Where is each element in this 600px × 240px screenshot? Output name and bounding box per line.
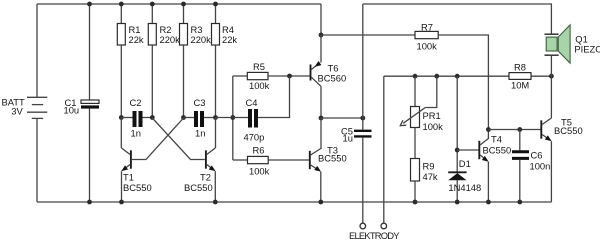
label C5 1u bbox=[341, 125, 353, 143]
svg-text:PIEZO: PIEZO bbox=[574, 44, 600, 55]
transistor T3 BC550 bbox=[310, 149, 321, 172]
wire T6 collector bbox=[320, 86, 322, 118]
resistor R8 10M bbox=[509, 73, 531, 80]
wire T5 emitter to ground bbox=[550, 141, 552, 202]
svg-text:1u: 1u bbox=[343, 133, 353, 144]
svg-text:T1: T1 bbox=[123, 172, 134, 183]
svg-text:Q1: Q1 bbox=[575, 33, 588, 44]
svg-text:470p: 470p bbox=[244, 132, 265, 143]
node C4 left junction bbox=[230, 115, 235, 120]
node C6 top junction bbox=[517, 127, 522, 132]
svg-text:100k: 100k bbox=[249, 80, 270, 91]
svg-text:100n: 100n bbox=[530, 160, 551, 171]
wire R5-R6 left bus bbox=[232, 76, 234, 160]
wire battery positive lead bbox=[36, 4, 38, 97]
transistor T2 BC550 bbox=[206, 148, 216, 171]
wire R3 top lead bbox=[181, 2, 186, 24]
svg-text:1N4148: 1N4148 bbox=[448, 182, 481, 193]
wire C1 bottom lead bbox=[87, 109, 92, 205]
node D1 top junction bbox=[455, 74, 460, 79]
wire PR1 to R9 bbox=[414, 128, 416, 159]
label R8 10M bbox=[511, 61, 529, 90]
node PR1 top junction bbox=[413, 74, 418, 79]
wire C2 left lead bbox=[121, 117, 132, 119]
svg-text:R8: R8 bbox=[514, 61, 526, 72]
resistor R9 47k bbox=[411, 159, 420, 182]
wire T1 emitter to ground bbox=[119, 171, 124, 204]
wire ground bottom rail bbox=[37, 201, 551, 203]
svg-text:1n: 1n bbox=[195, 128, 205, 139]
transistor T5 BC550 bbox=[541, 118, 551, 141]
resistor R4 22k bbox=[212, 24, 220, 46]
label T2 BC550 bbox=[184, 172, 213, 194]
node R2 C2 junction bbox=[150, 115, 155, 120]
wire C5 to left electrode bbox=[362, 138, 364, 224]
wire C2 to T2 base (cross) bbox=[152, 118, 205, 160]
wire T2 emitter to ground bbox=[213, 171, 218, 204]
node C5 top junction bbox=[360, 116, 365, 121]
svg-text:100k: 100k bbox=[423, 121, 444, 132]
wire C6 top lead bbox=[519, 130, 521, 151]
wire C3 to T1 base (cross) bbox=[132, 118, 184, 160]
wire R7 right lead bbox=[438, 35, 488, 130]
label BATT 3V bbox=[2, 96, 26, 116]
svg-text:C6: C6 bbox=[531, 150, 543, 161]
svg-text:BC550: BC550 bbox=[123, 182, 152, 193]
label R9 47k bbox=[423, 161, 438, 182]
wire T2 collector bbox=[215, 118, 217, 149]
label T3 BC550 bbox=[318, 145, 347, 164]
capacitor C6 100n bbox=[512, 152, 529, 159]
transistor T4 BC550 bbox=[479, 139, 488, 162]
wire C4 right lead bbox=[258, 76, 290, 118]
wire T1 collector bbox=[120, 118, 122, 149]
svg-text:PR1: PR1 bbox=[423, 110, 441, 121]
svg-text:C2: C2 bbox=[130, 97, 142, 108]
svg-text:C3: C3 bbox=[194, 97, 206, 108]
wire R5 right lead bbox=[268, 75, 310, 77]
wire D1 cathode lead bbox=[456, 76, 458, 171]
electrode left terminal bbox=[360, 223, 366, 229]
wire C5 top lead bbox=[362, 118, 364, 130]
label R5 100k bbox=[249, 61, 270, 91]
label C2 1n bbox=[130, 97, 142, 139]
svg-text:T2: T2 bbox=[200, 172, 211, 183]
wire T2 collector to C4 bbox=[216, 117, 249, 119]
node R3 C3 junction bbox=[181, 115, 186, 120]
electrode right terminal bbox=[381, 223, 387, 229]
label T4 BC550 bbox=[483, 133, 512, 155]
node T4 collector junction bbox=[486, 127, 491, 132]
capacitor C2 1n bbox=[135, 111, 141, 127]
wire T3 emitter to ground bbox=[318, 172, 323, 205]
capacitor C4 470p bbox=[250, 109, 256, 128]
wire R7 left lead bbox=[321, 34, 415, 36]
svg-text:BC550: BC550 bbox=[184, 182, 213, 193]
svg-text:100k: 100k bbox=[249, 166, 270, 177]
wire R4 bottom to node bbox=[215, 45, 217, 118]
node T4 base junction bbox=[455, 148, 460, 153]
wire R9 to ground bbox=[413, 181, 418, 204]
svg-text:220k: 220k bbox=[191, 34, 212, 45]
wire T4 collector stub bbox=[487, 130, 489, 140]
wire battery negative lead bbox=[36, 118, 38, 202]
wire C1 top lead bbox=[87, 2, 92, 100]
svg-text:BC550: BC550 bbox=[554, 125, 583, 136]
wire piezo drive vertical bbox=[362, 4, 364, 118]
svg-text:22k: 22k bbox=[129, 34, 144, 45]
capacitor C1 10u bbox=[81, 100, 99, 109]
svg-text:D1: D1 bbox=[459, 158, 471, 169]
label R7 100k bbox=[417, 21, 438, 51]
label R1 22k bbox=[129, 24, 144, 45]
wire C6 to ground bbox=[517, 160, 522, 204]
node T1 collector junction bbox=[119, 115, 124, 120]
node +3V to R7/T6 junction bbox=[319, 33, 324, 38]
wire R6 left lead bbox=[233, 159, 248, 161]
battery BATT 3V bbox=[27, 97, 47, 118]
svg-text:10u: 10u bbox=[64, 104, 80, 115]
resistor R1 22k bbox=[117, 24, 125, 46]
label R3 220k bbox=[191, 24, 212, 45]
resistor R3 220k bbox=[180, 24, 188, 46]
label C3 1n bbox=[194, 97, 206, 139]
transistor T1 BC550 bbox=[121, 148, 131, 171]
svg-text:R6: R6 bbox=[253, 144, 265, 155]
wire R4 top lead bbox=[213, 2, 218, 24]
svg-text:1n: 1n bbox=[131, 128, 141, 139]
label R2 220k bbox=[160, 24, 181, 45]
label PR1 100k bbox=[423, 110, 444, 132]
node wiper junction bbox=[434, 74, 439, 79]
svg-text:220k: 220k bbox=[160, 34, 181, 45]
wire D1 base to T4 bbox=[457, 149, 478, 151]
node T6-T3 output junction bbox=[319, 116, 324, 121]
resistor PR1 100k preset bbox=[411, 107, 420, 128]
speaker Q1 PIEZO bbox=[545, 25, 571, 63]
wire output to C5 bbox=[321, 117, 363, 119]
svg-text:22k: 22k bbox=[222, 34, 237, 45]
label T5 BC550 bbox=[554, 116, 583, 136]
svg-text:100k: 100k bbox=[417, 40, 438, 51]
svg-text:BC550: BC550 bbox=[318, 153, 347, 164]
wire detector line bbox=[384, 75, 509, 77]
wire D1 anode to ground bbox=[455, 180, 460, 204]
wiper PR1 bbox=[400, 76, 437, 125]
label T6 BC560 bbox=[318, 63, 347, 84]
label C6 100n bbox=[530, 150, 551, 172]
label R6 100k bbox=[249, 144, 270, 176]
wire R3 bottom to node bbox=[183, 45, 185, 118]
svg-text:47k: 47k bbox=[423, 171, 438, 182]
wire piezo top rail bbox=[363, 4, 552, 34]
label ELEKTRODY bbox=[349, 230, 400, 240]
resistor R5 100k bbox=[247, 72, 268, 79]
wire T6 emitter bbox=[320, 35, 322, 63]
wire R2 top lead bbox=[150, 2, 155, 24]
label R4 22k bbox=[222, 24, 237, 45]
wire C2 right lead bbox=[143, 117, 153, 119]
wire +3V top rail bbox=[37, 4, 321, 35]
wire T4 collector to T5 base bbox=[488, 129, 540, 131]
svg-text:3V: 3V bbox=[11, 106, 23, 117]
wire R6 right lead bbox=[268, 159, 309, 161]
wire C3 left lead bbox=[184, 117, 195, 119]
svg-text:ELEKTRODY: ELEKTRODY bbox=[349, 230, 400, 240]
transistor T6 BC560 bbox=[311, 61, 322, 86]
wire T4 emitter to ground bbox=[486, 162, 491, 205]
wire T3 collector bbox=[320, 118, 322, 149]
label C4 470p bbox=[244, 97, 265, 143]
svg-text:R5: R5 bbox=[253, 61, 265, 72]
capacitor C5 1u bbox=[354, 131, 372, 137]
svg-text:10M: 10M bbox=[511, 80, 529, 91]
svg-text:BC560: BC560 bbox=[318, 73, 347, 84]
wire R1 bottom to node bbox=[120, 45, 122, 118]
resistor R6 100k bbox=[248, 156, 269, 163]
wire piezo bottom lead bbox=[550, 56, 552, 76]
node T2 collector junction bbox=[213, 115, 218, 120]
capacitor C3 1n bbox=[196, 111, 202, 127]
wire C3 right lead bbox=[204, 117, 216, 119]
wire PR1 top lead bbox=[414, 76, 416, 106]
node R5 C4 wiper junction bbox=[287, 74, 292, 79]
resistor R7 100k bbox=[415, 31, 438, 38]
wire R1 top lead bbox=[119, 2, 124, 24]
wire R8 right lead bbox=[531, 75, 551, 77]
svg-text:T4: T4 bbox=[491, 133, 502, 144]
svg-text:BC550: BC550 bbox=[483, 144, 512, 155]
label D1 1N4148 bbox=[448, 158, 481, 193]
label T1 BC550 bbox=[123, 172, 152, 194]
resistor R2 220k bbox=[148, 24, 156, 46]
wire right electrode bbox=[383, 76, 385, 223]
label C1 10u bbox=[64, 97, 80, 115]
node piezo R8 T5 junction bbox=[549, 74, 554, 79]
svg-text:C4: C4 bbox=[246, 97, 258, 108]
wire T5 collector bbox=[550, 76, 552, 118]
svg-text:R7: R7 bbox=[421, 21, 433, 32]
diode D1 1N4148 bbox=[448, 172, 466, 180]
wire R5 left lead bbox=[233, 75, 248, 77]
label Q1 PIEZO bbox=[574, 33, 600, 54]
wire R2 bottom to node bbox=[151, 45, 153, 118]
